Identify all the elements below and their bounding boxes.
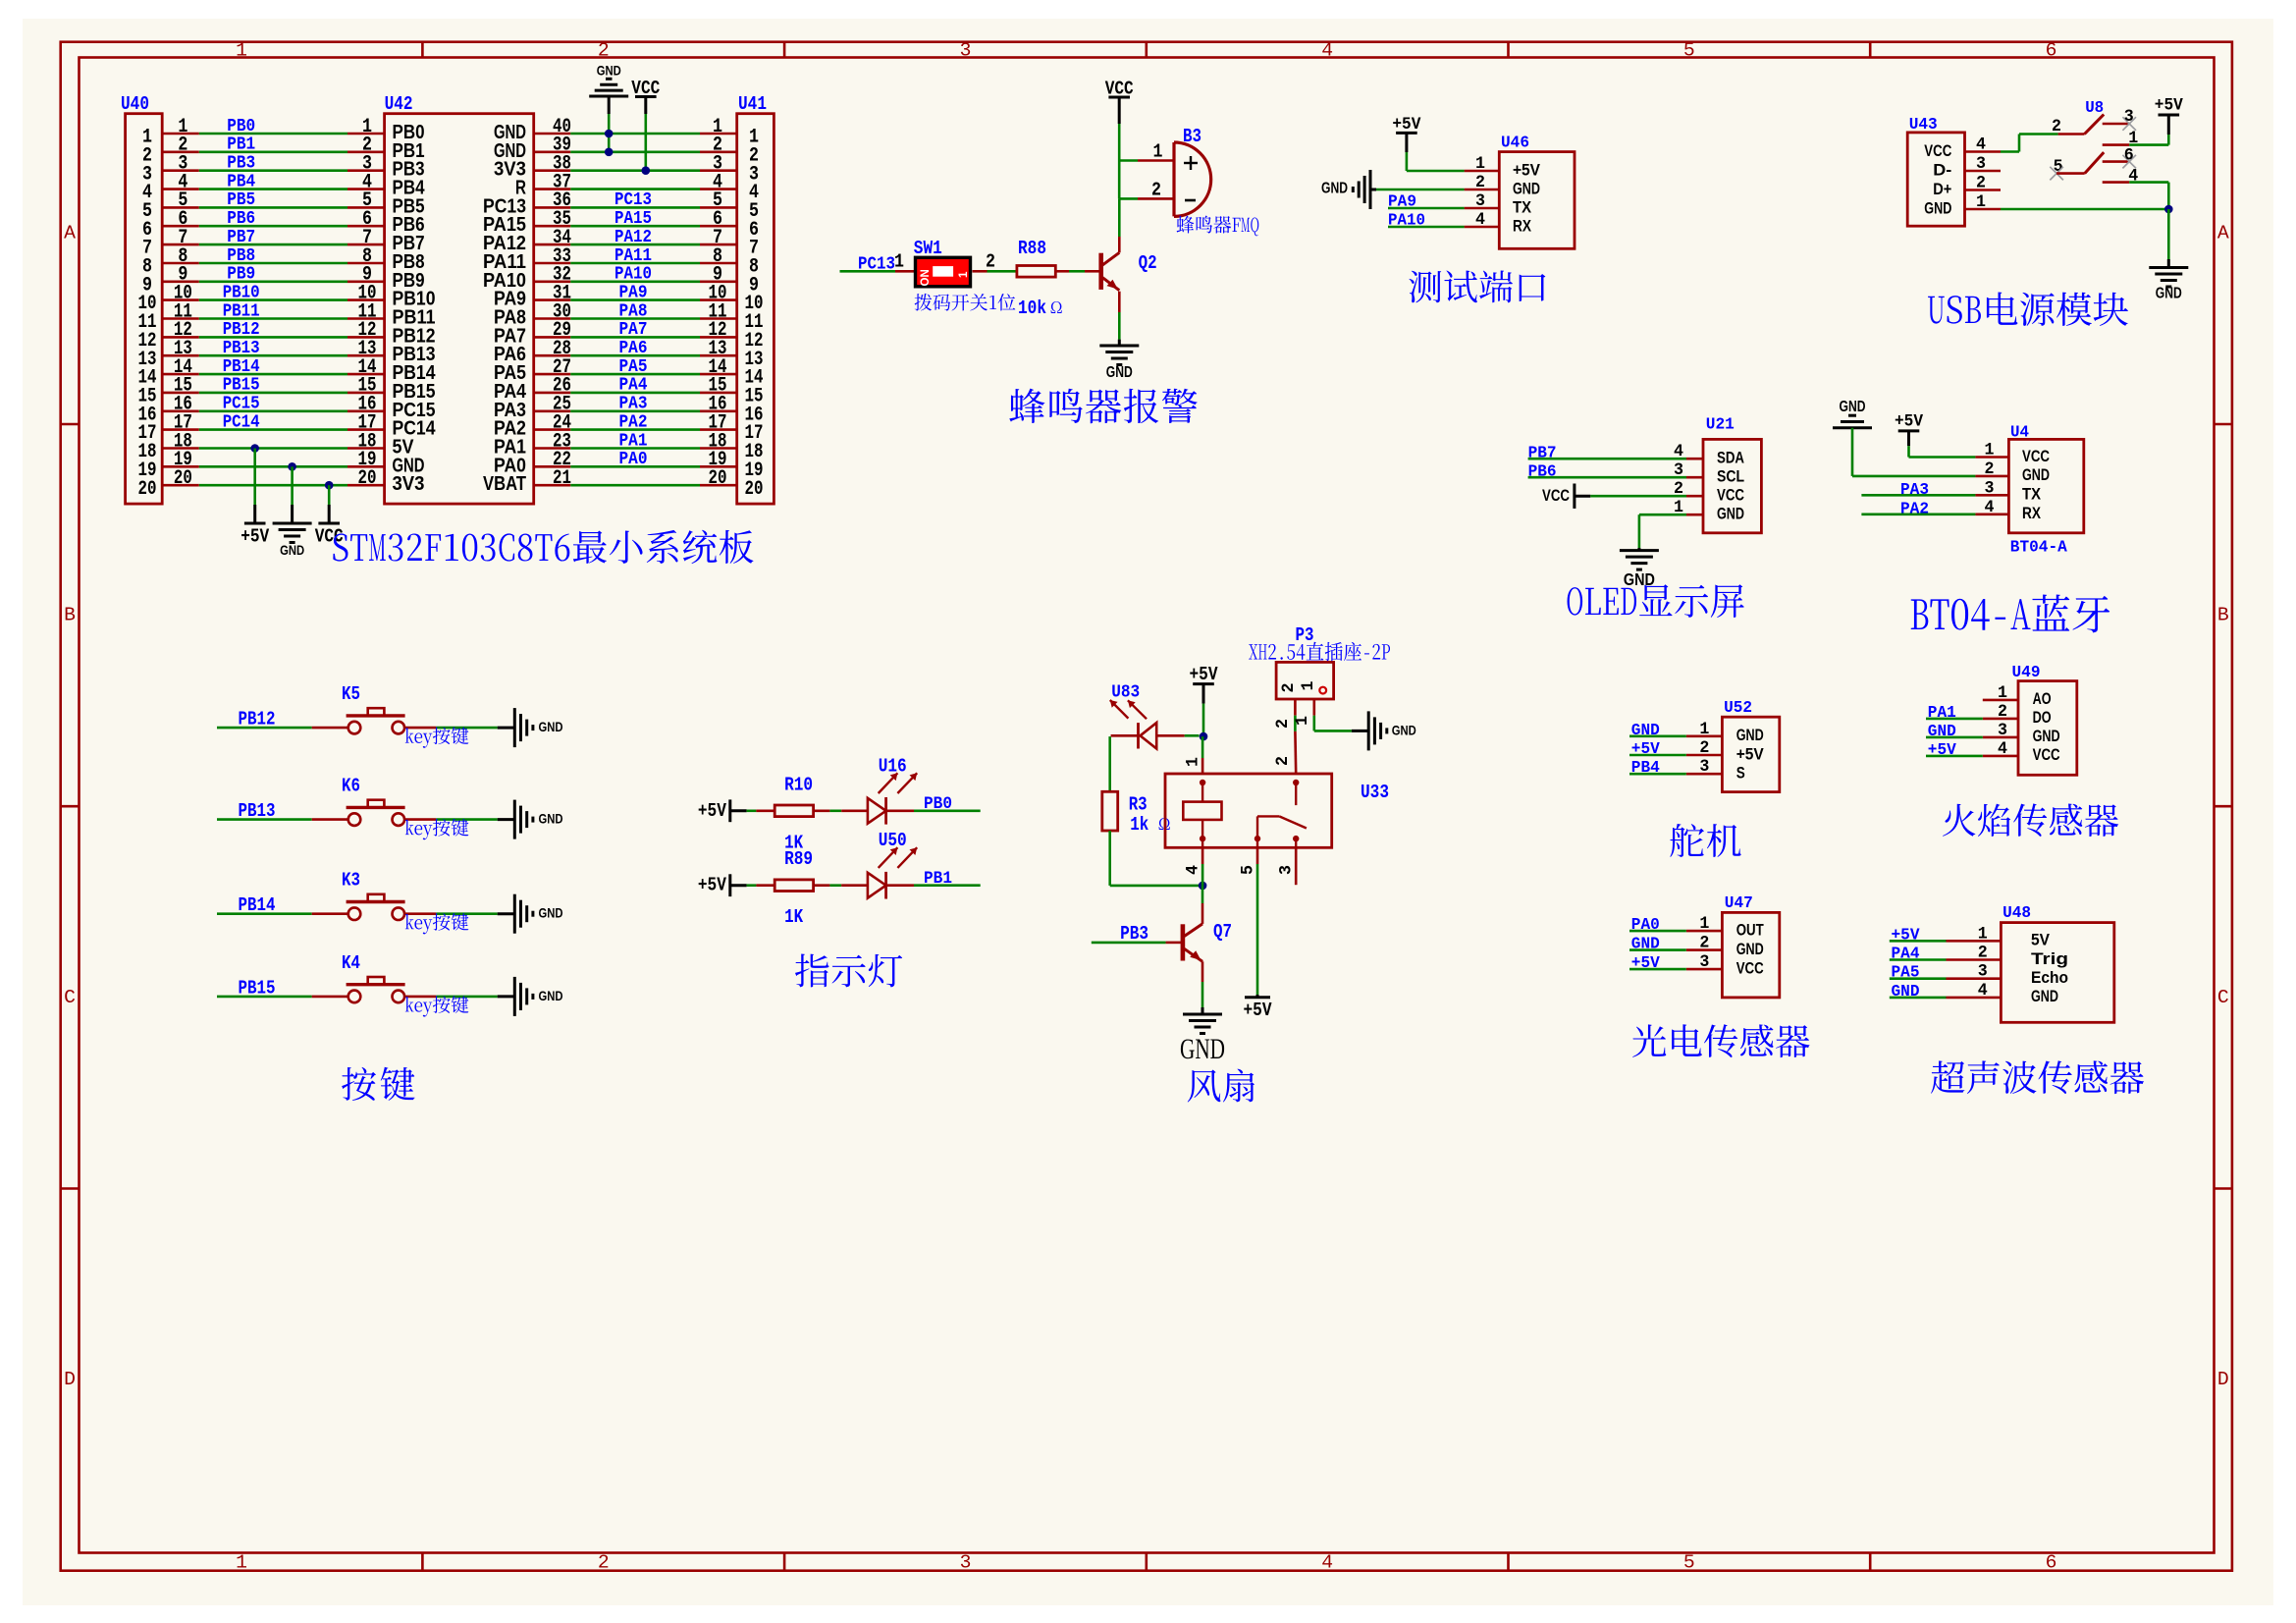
svg-text:RX: RX: [1513, 217, 1531, 235]
svg-text:2: 2: [1976, 174, 1986, 193]
svg-text:GND: GND: [1321, 181, 1348, 197]
svg-text:1: 1: [1293, 716, 1312, 726]
svg-text:PC13: PC13: [614, 190, 652, 210]
svg-text:PA11: PA11: [614, 246, 652, 266]
svg-text:PB12: PB12: [223, 320, 260, 340]
svg-text:1K: 1K: [784, 906, 803, 928]
svg-text:PB10: PB10: [223, 283, 260, 302]
svg-text:SCL: SCL: [1717, 468, 1744, 486]
svg-text:SDA: SDA: [1717, 450, 1744, 467]
svg-text:U48: U48: [2002, 904, 2031, 923]
svg-text:2: 2: [1273, 719, 1293, 729]
svg-text:10k: 10k: [1018, 298, 1046, 319]
svg-text:4: 4: [2128, 167, 2138, 187]
svg-text:PB3: PB3: [227, 154, 255, 174]
svg-text:R3: R3: [1129, 793, 1148, 815]
svg-text:DO: DO: [2033, 709, 2052, 727]
svg-text:PA2: PA2: [1900, 500, 1929, 518]
svg-text:3: 3: [1985, 478, 1995, 498]
svg-text:PB15: PB15: [223, 376, 260, 396]
svg-text:VCC: VCC: [315, 526, 344, 548]
svg-text:1: 1: [1699, 914, 1709, 934]
svg-text:1: 1: [1985, 441, 1995, 460]
svg-text:GND: GND: [597, 64, 621, 80]
svg-text:4: 4: [1321, 40, 1333, 62]
svg-text:VCC: VCC: [1542, 486, 1570, 505]
svg-text:3: 3: [1699, 952, 1709, 972]
svg-text:K3: K3: [342, 870, 360, 892]
svg-text:GND: GND: [2033, 728, 2060, 745]
svg-text:PA15: PA15: [614, 209, 652, 229]
svg-text:VCC: VCC: [1717, 487, 1744, 505]
svg-text:+5V: +5V: [1736, 745, 1764, 763]
svg-text:K6: K6: [342, 776, 360, 797]
svg-text:GND: GND: [1631, 936, 1660, 954]
svg-text:2: 2: [1273, 756, 1293, 766]
svg-text:B: B: [2217, 605, 2229, 626]
svg-text:PB0: PB0: [227, 117, 255, 136]
svg-text:+5V: +5V: [1895, 412, 1923, 432]
svg-text:3: 3: [1475, 191, 1485, 211]
svg-text:U33: U33: [1361, 782, 1389, 803]
svg-text:PA6: PA6: [619, 339, 648, 358]
svg-text:+5V: +5V: [1190, 664, 1218, 685]
svg-text:GND: GND: [539, 906, 563, 922]
svg-text:PB8: PB8: [227, 246, 255, 266]
svg-text:PA9: PA9: [619, 283, 648, 302]
svg-text:AO: AO: [2033, 690, 2052, 708]
svg-text:20: 20: [358, 467, 377, 490]
svg-text:RX: RX: [2022, 505, 2041, 522]
svg-text:PB1: PB1: [924, 869, 952, 889]
svg-text:2: 2: [1279, 683, 1299, 693]
svg-text:PB9: PB9: [227, 265, 255, 285]
svg-text:PB4: PB4: [1631, 759, 1660, 778]
svg-text:1: 1: [1153, 141, 1163, 163]
svg-text:GND: GND: [2156, 286, 2182, 302]
svg-text:VCC: VCC: [1736, 959, 1764, 977]
svg-text:+5V: +5V: [1892, 926, 1920, 945]
svg-text:2: 2: [986, 251, 995, 273]
svg-text:PB14: PB14: [223, 357, 260, 377]
svg-text:GND: GND: [1736, 941, 1764, 958]
svg-text:U40: U40: [121, 93, 149, 115]
svg-text:U43: U43: [1909, 116, 1938, 135]
svg-text:2: 2: [2052, 117, 2061, 136]
svg-text:20: 20: [138, 478, 157, 501]
svg-text:Trig: Trig: [2031, 950, 2068, 968]
svg-text:PA2: PA2: [619, 412, 648, 432]
svg-text:1: 1: [1699, 720, 1709, 739]
svg-text:U42: U42: [385, 93, 413, 115]
svg-text:3: 3: [1978, 962, 1988, 982]
svg-text:SW1: SW1: [914, 238, 942, 259]
svg-text:PB4: PB4: [227, 172, 255, 191]
svg-text:PB11: PB11: [223, 301, 260, 321]
svg-text:VCC: VCC: [1924, 142, 1951, 160]
svg-text:20: 20: [709, 467, 727, 490]
svg-text:PA1: PA1: [619, 431, 648, 451]
svg-text:S: S: [1736, 765, 1745, 783]
svg-text:2: 2: [1978, 944, 1988, 963]
svg-text:GND: GND: [1631, 722, 1660, 740]
svg-text:GND: GND: [280, 543, 304, 559]
svg-text:GND: GND: [2031, 988, 2058, 1005]
svg-text:+5V: +5V: [2155, 96, 2183, 116]
svg-text:PA5: PA5: [1892, 964, 1920, 983]
svg-text:3: 3: [1277, 865, 1297, 875]
svg-text:TX: TX: [2022, 486, 2041, 504]
svg-text:TX: TX: [1513, 198, 1531, 216]
svg-text:D-: D-: [1933, 161, 1951, 179]
svg-text:2: 2: [1699, 738, 1709, 758]
svg-text:BT04-A: BT04-A: [2010, 539, 2068, 558]
svg-text:PA0: PA0: [619, 450, 648, 469]
svg-text:4: 4: [1321, 1552, 1333, 1574]
svg-text:GND: GND: [1513, 180, 1540, 197]
svg-text:1: 1: [958, 271, 970, 278]
svg-text:6: 6: [2046, 1552, 2057, 1574]
svg-text:+5V: +5V: [1513, 161, 1540, 179]
svg-text:3: 3: [2124, 107, 2134, 127]
svg-text:PA3: PA3: [619, 395, 648, 414]
svg-text:1: 1: [1184, 757, 1203, 767]
svg-text:PA4: PA4: [1892, 946, 1920, 964]
svg-text:D+: D+: [1933, 181, 1951, 198]
svg-text:3V3: 3V3: [393, 472, 425, 495]
svg-text:6: 6: [2124, 146, 2134, 166]
svg-text:4: 4: [1998, 739, 2007, 759]
svg-text:GND: GND: [1180, 1033, 1225, 1065]
svg-text:2: 2: [598, 1552, 610, 1574]
svg-text:ON: ON: [920, 269, 932, 286]
svg-text:2: 2: [1475, 173, 1485, 192]
svg-text:PA0: PA0: [1631, 916, 1660, 935]
svg-text:U52: U52: [1724, 699, 1752, 718]
svg-text:P3: P3: [1296, 624, 1314, 646]
svg-text:K4: K4: [342, 952, 360, 974]
svg-text:U21: U21: [1706, 416, 1735, 435]
svg-text:PA10: PA10: [614, 265, 652, 285]
svg-text:B3: B3: [1183, 126, 1201, 147]
svg-text:A: A: [64, 222, 76, 243]
svg-text:R10: R10: [784, 774, 813, 795]
svg-text:4: 4: [1475, 210, 1485, 230]
svg-text:20: 20: [745, 478, 764, 501]
svg-text:PB6: PB6: [1528, 463, 1557, 482]
svg-text:4: 4: [1985, 498, 1995, 517]
svg-text:C: C: [64, 987, 76, 1008]
svg-text:2: 2: [1699, 934, 1709, 953]
svg-text:PB1: PB1: [227, 135, 255, 155]
svg-text:GND: GND: [1840, 399, 1866, 415]
svg-text:3: 3: [1976, 154, 1986, 174]
svg-text:VCC: VCC: [2022, 448, 2050, 465]
svg-text:R88: R88: [1018, 238, 1046, 259]
svg-text:3: 3: [960, 1552, 972, 1574]
svg-text:2: 2: [598, 40, 610, 62]
svg-text:4: 4: [1978, 981, 1988, 1001]
svg-text:1: 1: [1976, 192, 1986, 212]
svg-text:U46: U46: [1501, 135, 1529, 153]
svg-text:R89: R89: [784, 848, 813, 870]
svg-text:U50: U50: [879, 830, 907, 851]
svg-text:B: B: [64, 605, 76, 626]
svg-text:1: 1: [1475, 154, 1485, 174]
svg-text:K5: K5: [342, 683, 360, 705]
svg-text:VCC: VCC: [2033, 746, 2060, 764]
svg-text:U8: U8: [2085, 99, 2104, 118]
svg-text:GND: GND: [539, 812, 563, 828]
svg-text:A: A: [2217, 222, 2229, 243]
svg-text:GND: GND: [1106, 364, 1133, 381]
svg-text:+5V: +5V: [698, 875, 726, 896]
svg-text:1: 1: [1998, 683, 2007, 703]
svg-text:+5V: +5V: [1244, 1000, 1272, 1021]
svg-text:PB0: PB0: [924, 794, 952, 814]
svg-text:C: C: [2217, 987, 2229, 1008]
svg-text:PC14: PC14: [223, 412, 260, 432]
svg-text:1: 1: [236, 40, 247, 62]
svg-text:PA8: PA8: [619, 301, 648, 321]
svg-text:PB7: PB7: [227, 228, 255, 247]
svg-text:U4: U4: [2010, 423, 2029, 442]
svg-text:3: 3: [960, 40, 972, 62]
svg-text:5: 5: [1683, 40, 1695, 62]
svg-text:PB13: PB13: [223, 339, 260, 358]
svg-text:PA3: PA3: [1900, 481, 1929, 500]
svg-text:PB6: PB6: [227, 209, 255, 229]
svg-text:Q2: Q2: [1139, 252, 1157, 274]
svg-text:3: 3: [1998, 721, 2007, 740]
svg-text:+5V: +5V: [1631, 954, 1660, 973]
svg-text:GND: GND: [539, 720, 563, 735]
svg-text:U49: U49: [2012, 664, 2041, 682]
svg-text:GND: GND: [1717, 506, 1744, 523]
svg-text:1: 1: [894, 251, 904, 273]
svg-text:+5V: +5V: [240, 526, 269, 548]
svg-text:21: 21: [553, 467, 571, 490]
svg-text:1: 1: [236, 1552, 247, 1574]
svg-text:GND: GND: [2022, 466, 2050, 484]
svg-text:1k: 1k: [1130, 814, 1148, 836]
svg-text:+5V: +5V: [1631, 740, 1660, 759]
svg-text:Echo: Echo: [2031, 969, 2068, 987]
svg-text:OUT: OUT: [1736, 921, 1764, 939]
svg-text:D: D: [2217, 1369, 2229, 1390]
svg-text:GND: GND: [1924, 199, 1951, 217]
svg-text:U47: U47: [1725, 894, 1753, 913]
svg-text:+5V: +5V: [698, 800, 726, 822]
svg-text:PB5: PB5: [227, 190, 255, 210]
svg-text:VBAT: VBAT: [483, 472, 526, 495]
svg-text:GND: GND: [539, 989, 563, 1004]
svg-text:2: 2: [1985, 460, 1995, 479]
svg-text:4: 4: [1184, 865, 1203, 875]
svg-text:GND: GND: [1736, 727, 1764, 744]
svg-text:5V: 5V: [2031, 932, 2050, 949]
svg-text:GND: GND: [1392, 723, 1416, 738]
svg-text:4: 4: [1976, 135, 1986, 155]
svg-text:D: D: [64, 1369, 76, 1390]
svg-text:PA12: PA12: [614, 228, 652, 247]
svg-text:1: 1: [1978, 924, 1988, 944]
svg-text:5: 5: [1683, 1552, 1695, 1574]
svg-text:2: 2: [1998, 702, 2007, 722]
svg-text:20: 20: [174, 467, 192, 490]
svg-text:Q7: Q7: [1213, 921, 1232, 943]
svg-text:U16: U16: [879, 755, 907, 777]
svg-text:3: 3: [1699, 757, 1709, 777]
svg-text:PA4: PA4: [619, 376, 648, 396]
svg-text:U83: U83: [1111, 682, 1140, 702]
svg-text:PA7: PA7: [619, 320, 648, 340]
svg-text:PC15: PC15: [223, 395, 260, 414]
svg-text:2: 2: [1151, 179, 1161, 200]
svg-text:6: 6: [2046, 40, 2057, 62]
svg-text:PB7: PB7: [1528, 445, 1557, 463]
svg-text:GND: GND: [1892, 983, 1920, 1001]
svg-text:5: 5: [1238, 865, 1257, 875]
svg-text:1: 1: [1299, 681, 1318, 691]
svg-text:PA5: PA5: [619, 357, 648, 377]
svg-text:U41: U41: [738, 93, 767, 115]
